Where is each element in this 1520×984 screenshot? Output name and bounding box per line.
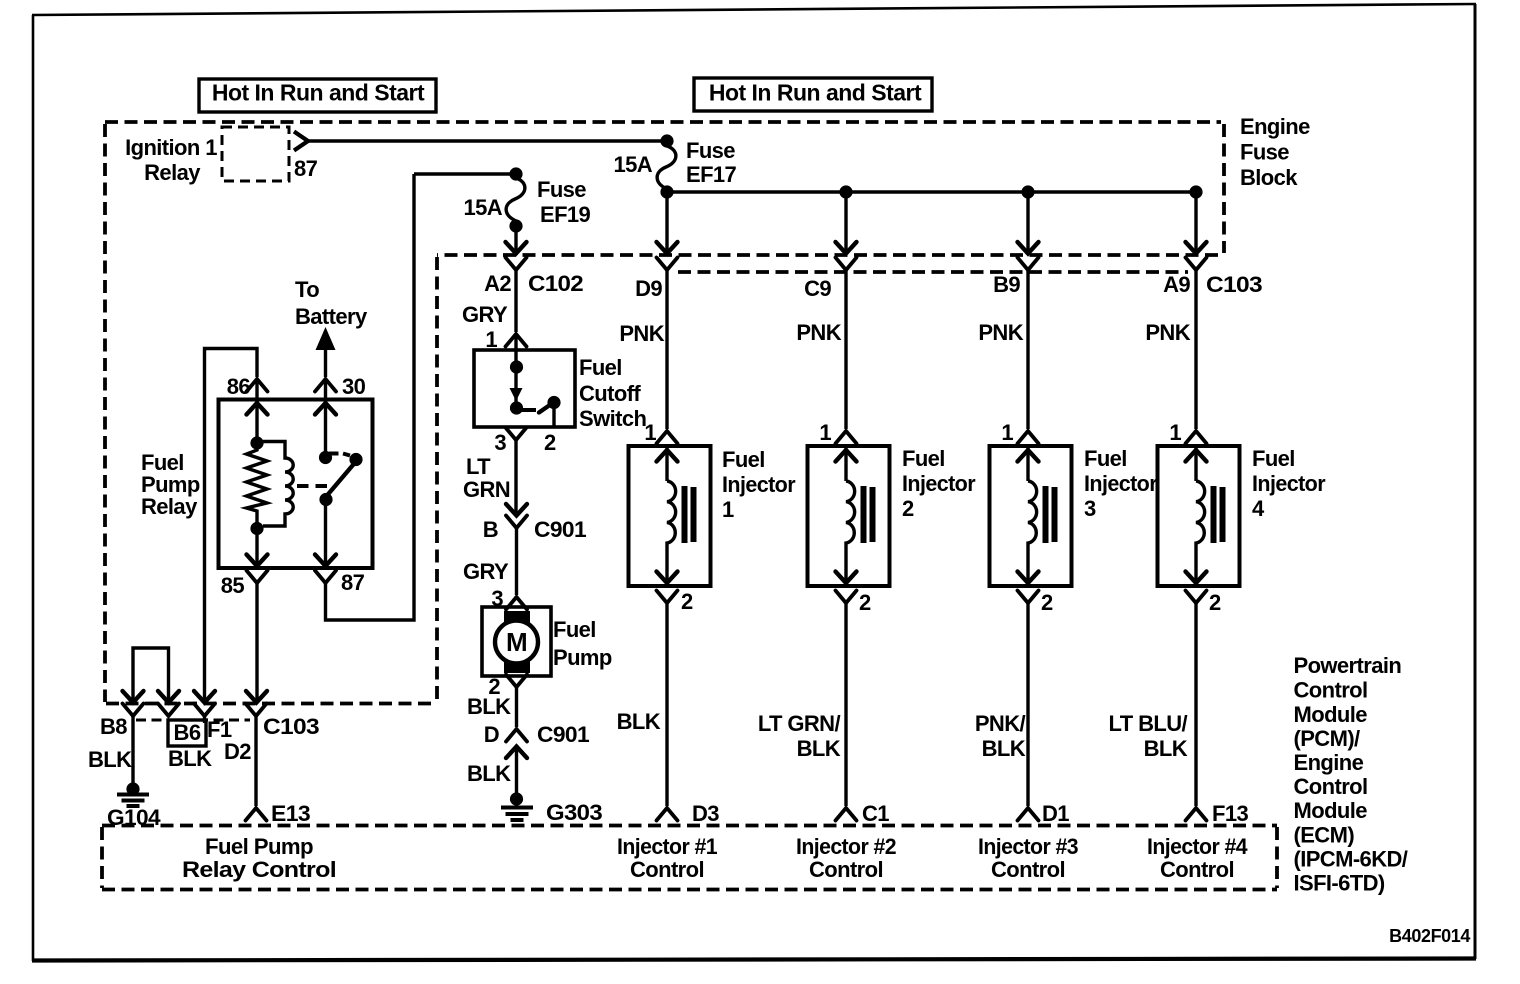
svg-text:Hot In Run and Start: Hot In Run and Start bbox=[709, 80, 922, 106]
svg-text:1: 1 bbox=[1169, 420, 1181, 445]
svg-text:GRN: GRN bbox=[463, 477, 510, 502]
svg-text:3: 3 bbox=[494, 430, 506, 455]
svg-text:BLK: BLK bbox=[1144, 736, 1188, 761]
svg-text:G303: G303 bbox=[546, 800, 602, 825]
svg-text:LT GRN/: LT GRN/ bbox=[758, 711, 841, 736]
svg-text:2: 2 bbox=[859, 590, 871, 615]
svg-text:LT: LT bbox=[466, 454, 491, 479]
svg-text:Injector #3: Injector #3 bbox=[978, 834, 1078, 859]
svg-text:2: 2 bbox=[902, 496, 914, 521]
svg-text:Injector: Injector bbox=[902, 471, 976, 496]
svg-text:Relay: Relay bbox=[144, 160, 201, 185]
svg-text:EF17: EF17 bbox=[686, 162, 737, 187]
svg-text:Injector #1: Injector #1 bbox=[617, 834, 717, 859]
svg-text:Engine: Engine bbox=[1294, 750, 1364, 775]
svg-text:D1: D1 bbox=[1042, 801, 1069, 826]
svg-text:(IPCM-6KD/: (IPCM-6KD/ bbox=[1294, 847, 1408, 872]
svg-text:B6: B6 bbox=[174, 720, 201, 745]
svg-text:Fuse: Fuse bbox=[1240, 140, 1289, 165]
svg-text:C1: C1 bbox=[862, 801, 889, 826]
svg-text:Relay Control: Relay Control bbox=[182, 857, 336, 882]
svg-text:B9: B9 bbox=[993, 272, 1020, 297]
svg-text:Battery: Battery bbox=[295, 304, 368, 329]
svg-text:BLK: BLK bbox=[797, 736, 841, 761]
svg-text:M: M bbox=[506, 627, 527, 657]
svg-text:87: 87 bbox=[294, 156, 318, 181]
svg-text:Fuse: Fuse bbox=[537, 177, 586, 202]
svg-text:85: 85 bbox=[221, 573, 245, 598]
svg-text:BLK: BLK bbox=[467, 761, 511, 786]
svg-text:Fuel: Fuel bbox=[1252, 446, 1295, 471]
svg-text:C9: C9 bbox=[804, 276, 831, 301]
svg-text:Control: Control bbox=[1294, 678, 1368, 703]
svg-text:Control: Control bbox=[630, 857, 704, 882]
svg-text:1: 1 bbox=[1001, 420, 1013, 445]
svg-text:30: 30 bbox=[342, 374, 366, 399]
svg-text:Module: Module bbox=[1294, 702, 1368, 727]
svg-text:B8: B8 bbox=[100, 714, 127, 739]
svg-text:Injector: Injector bbox=[1252, 471, 1326, 496]
svg-text:Module: Module bbox=[1294, 798, 1368, 823]
svg-text:Powertrain: Powertrain bbox=[1294, 653, 1402, 678]
svg-text:PNK: PNK bbox=[978, 320, 1023, 345]
svg-text:3: 3 bbox=[1084, 496, 1096, 521]
svg-text:ISFI-6TD): ISFI-6TD) bbox=[1294, 871, 1385, 896]
svg-text:D: D bbox=[484, 722, 499, 747]
svg-text:87: 87 bbox=[341, 570, 365, 595]
svg-text:D3: D3 bbox=[692, 801, 719, 826]
svg-text:(ECM): (ECM) bbox=[1294, 823, 1355, 848]
svg-text:Relay: Relay bbox=[141, 494, 198, 519]
svg-text:F13: F13 bbox=[1212, 801, 1248, 826]
svg-text:Control: Control bbox=[991, 857, 1065, 882]
svg-text:(PCM)/: (PCM)/ bbox=[1294, 726, 1361, 751]
svg-text:Fuel: Fuel bbox=[579, 355, 622, 380]
svg-text:D2: D2 bbox=[224, 739, 251, 764]
svg-text:Fuel: Fuel bbox=[1084, 446, 1127, 471]
svg-text:BLK: BLK bbox=[982, 736, 1026, 761]
svg-text:BLK: BLK bbox=[88, 747, 132, 772]
svg-text:Injector #2: Injector #2 bbox=[796, 834, 896, 859]
svg-text:PNK/: PNK/ bbox=[975, 711, 1026, 736]
svg-text:BLK: BLK bbox=[467, 694, 511, 719]
svg-text:A9: A9 bbox=[1163, 272, 1190, 297]
svg-text:Injector: Injector bbox=[722, 472, 796, 497]
svg-text:Control: Control bbox=[1294, 774, 1368, 799]
svg-text:Fuel Pump: Fuel Pump bbox=[205, 834, 313, 859]
svg-text:LT BLU/: LT BLU/ bbox=[1109, 711, 1188, 736]
svg-text:B402F014: B402F014 bbox=[1389, 926, 1470, 946]
svg-text:Hot In Run and Start: Hot In Run and Start bbox=[212, 80, 425, 106]
svg-text:BLK: BLK bbox=[168, 746, 212, 771]
svg-text:2: 2 bbox=[1209, 590, 1221, 615]
svg-text:2: 2 bbox=[544, 430, 556, 455]
svg-text:BLK: BLK bbox=[617, 709, 661, 734]
svg-text:Injector #4: Injector #4 bbox=[1147, 834, 1248, 859]
svg-text:GRY: GRY bbox=[462, 302, 508, 327]
svg-text:EF19: EF19 bbox=[540, 202, 591, 227]
svg-text:B: B bbox=[483, 517, 498, 542]
svg-text:Control: Control bbox=[809, 857, 883, 882]
svg-text:D9: D9 bbox=[635, 276, 662, 301]
svg-text:Fuel: Fuel bbox=[553, 617, 596, 642]
svg-text:PNK: PNK bbox=[796, 320, 841, 345]
svg-text:A2: A2 bbox=[484, 271, 511, 296]
svg-text:To: To bbox=[295, 277, 319, 302]
svg-text:Pump: Pump bbox=[553, 645, 612, 670]
svg-text:1: 1 bbox=[819, 420, 831, 445]
svg-text:C102: C102 bbox=[528, 271, 583, 296]
svg-text:Fuse: Fuse bbox=[686, 138, 735, 163]
svg-text:Ignition 1: Ignition 1 bbox=[125, 135, 217, 160]
svg-text:1: 1 bbox=[722, 497, 734, 522]
svg-text:15A: 15A bbox=[463, 195, 502, 220]
svg-text:C103: C103 bbox=[1206, 272, 1262, 297]
svg-text:4: 4 bbox=[1252, 496, 1265, 521]
svg-text:Injector: Injector bbox=[1084, 471, 1158, 496]
svg-text:PNK: PNK bbox=[1145, 320, 1190, 345]
svg-text:Control: Control bbox=[1160, 857, 1234, 882]
svg-text:Fuel: Fuel bbox=[722, 447, 765, 472]
svg-text:PNK: PNK bbox=[619, 321, 664, 346]
svg-text:C103: C103 bbox=[263, 714, 319, 739]
svg-text:C901: C901 bbox=[534, 517, 586, 542]
svg-text:2: 2 bbox=[681, 589, 693, 614]
svg-text:Switch: Switch bbox=[579, 406, 646, 431]
svg-text:Cutoff: Cutoff bbox=[579, 381, 641, 406]
svg-text:1: 1 bbox=[644, 420, 656, 445]
svg-text:E13: E13 bbox=[271, 801, 310, 826]
svg-text:Fuel: Fuel bbox=[902, 446, 945, 471]
svg-text:86: 86 bbox=[227, 374, 251, 399]
svg-text:C901: C901 bbox=[537, 722, 589, 747]
svg-text:Block: Block bbox=[1240, 165, 1298, 190]
svg-text:Engine: Engine bbox=[1240, 114, 1310, 139]
svg-text:15A: 15A bbox=[613, 152, 652, 177]
svg-text:2: 2 bbox=[1041, 590, 1053, 615]
svg-text:GRY: GRY bbox=[463, 559, 509, 584]
